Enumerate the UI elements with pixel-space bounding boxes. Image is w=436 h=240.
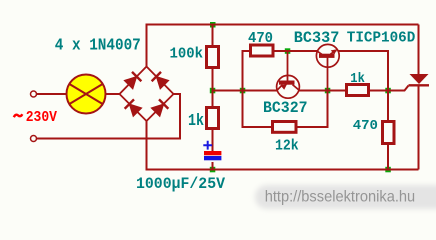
wire 470a left + drop to bus (243, 51, 250, 91)
terminal pad top (31, 91, 37, 97)
diode D1 (left-top) (124, 72, 141, 89)
svg-text:12k: 12k (275, 138, 299, 154)
node J6 (bus / gate-470b) (385, 88, 391, 94)
resistor R4 1k horizontal (347, 85, 369, 96)
capacitor C1 1000uF (203, 141, 221, 161)
wire 470b bottom lead (387, 144, 389, 170)
wire bottom rail (147, 121, 419, 170)
resistor R6 470 vertical (383, 122, 395, 144)
svg-text:BC337: BC337 (294, 29, 340, 47)
wire 470a right to BC337 collector (275, 50, 318, 52)
resistor R3 470 horizontal (251, 45, 274, 56)
svg-text:TICP106D: TICP106D (347, 30, 416, 47)
node J2 (bus / 100k-1k) (210, 88, 216, 94)
wire BC337 emitter to right (337, 51, 389, 91)
node J3 (bus / 470a-12k) (240, 88, 246, 94)
bridge rectifier B1 (120, 67, 174, 122)
svg-text:1k: 1k (350, 71, 365, 87)
wire top rail (147, 25, 419, 67)
wire lamp to bridge (106, 93, 120, 95)
terminal pad bottom (31, 136, 37, 142)
svg-text:470: 470 (248, 31, 273, 47)
transistor Q2 BC327 (277, 51, 300, 98)
wire AC top: terminal to lamp (37, 93, 67, 95)
svg-text:1000µF/25V: 1000µF/25V (136, 175, 225, 193)
node J5 (bus / BC337 base-12k) (325, 88, 331, 94)
node J1 (top rail / 100k) (210, 22, 216, 28)
wire mid bus left (213, 90, 346, 92)
label ~ tilde (14, 114, 22, 117)
diode D4 (bottom-right) (151, 99, 168, 116)
resistor R2 1k vertical (207, 108, 219, 129)
wire 12k loop left (243, 91, 272, 128)
svg-text:1k: 1k (188, 111, 204, 130)
svg-text:100k: 100k (170, 47, 204, 63)
wire mid bus right (370, 90, 405, 92)
wire 100k bottom lead (212, 68, 214, 91)
svg-text:4 x 1N4007: 4 x 1N4007 (55, 36, 141, 55)
wire thyristor anode (418, 25, 420, 75)
wire capacitor bottom lead (212, 162, 214, 170)
svg-text:230V: 230V (26, 110, 58, 126)
lamp LA1 (67, 75, 106, 114)
diode D3 (bottom-left) (125, 99, 142, 116)
wire thyristor cathode (418, 85, 420, 170)
svg-text:http://bsselektronika.hu: http://bsselektronika.hu (265, 189, 416, 206)
watermark band (255, 185, 436, 209)
wire 1k-vert bottom lead to capacitor (212, 129, 214, 151)
diode D2 (top-right) (152, 72, 169, 89)
node J7 (bottom rail / capacitor) (210, 167, 216, 173)
wire thyristor gate (388, 86, 409, 91)
transistor Q1 BC337 (316, 44, 339, 90)
resistor R1 100k (207, 47, 219, 68)
wire AC bottom (37, 94, 180, 139)
wire 1k-vert top lead (212, 91, 214, 108)
node J8 (bottom rail / 470b) (385, 167, 391, 173)
svg-text:BC327: BC327 (263, 99, 308, 117)
svg-text:470: 470 (353, 118, 378, 134)
wire 12k loop right (298, 91, 328, 128)
thyristor TH1 TICP106D (409, 74, 430, 85)
wire 100k top lead (212, 25, 214, 47)
resistor R5 12k (273, 122, 297, 133)
node J4 (470a / BC327 base) (285, 48, 291, 54)
wire 470b top lead (387, 91, 389, 122)
